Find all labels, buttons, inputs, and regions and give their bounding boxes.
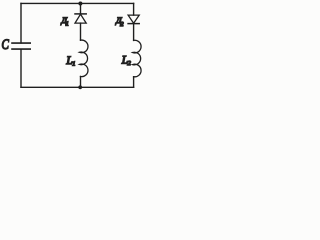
node junction bottom: [78, 85, 82, 89]
node junction top: [78, 2, 82, 6]
inductor L1: [80, 40, 88, 77]
wire bottom rail: [21, 86, 134, 88]
wire L2 bottom lead: [133, 77, 135, 88]
svg-text:2: 2: [120, 21, 124, 28]
inductor L2: [133, 40, 141, 77]
svg-text:C: C: [2, 37, 10, 53]
wire left side upper: [20, 3, 22, 43]
capacitor C: [12, 43, 30, 49]
wire L1 bottom lead: [80, 77, 82, 88]
wire diode D2 top lead: [133, 3, 135, 15]
diode D1: [75, 14, 86, 23]
wire between D1 and L1: [80, 23, 82, 40]
svg-text:1: 1: [66, 20, 69, 27]
svg-text:2: 2: [128, 60, 132, 67]
wire diode D1 top lead: [80, 3, 82, 14]
wire left side lower: [20, 49, 22, 87]
wire between D2 and L2: [133, 24, 135, 41]
diode D2: [128, 15, 139, 24]
svg-text:1: 1: [72, 61, 75, 68]
wire top rail: [21, 2, 134, 4]
